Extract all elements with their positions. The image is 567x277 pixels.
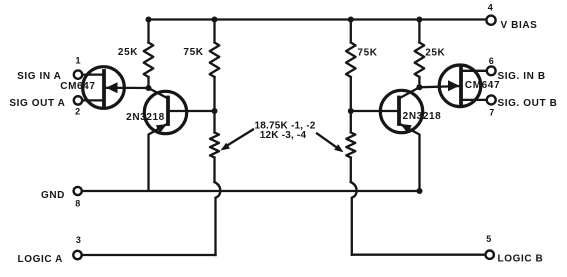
- transistor Q2 2N3218 left : circle: [144, 91, 186, 133]
- transistor Q2 2N3218 left : base bar: [166, 98, 170, 125]
- resistor 25K left: [144, 20, 154, 89]
- transistor Q4 CM647 right : pin 7 lead: [461, 99, 487, 101]
- terminal 4 V BIAS: [486, 16, 495, 25]
- CM647 right emitter arrow: [448, 80, 460, 91]
- svg-text:V BIAS: V BIAS: [501, 20, 538, 31]
- transistor Q3 2N3218 right : circle: [380, 90, 422, 132]
- CM647 left emitter arrow: [106, 82, 118, 93]
- transistor Q3 2N3218 right : base bar: [397, 98, 401, 125]
- svg-text:1: 1: [75, 56, 80, 66]
- resistor 75K right: [346, 20, 356, 112]
- svg-text:LOGIC A: LOGIC A: [18, 254, 64, 265]
- wire GND rail: [82, 190, 420, 192]
- svg-text:75K: 75K: [357, 47, 377, 58]
- svg-text:7: 7: [489, 107, 494, 117]
- svg-text:12K -3, -4: 12K -3, -4: [260, 130, 307, 141]
- transistor Q1 CM647 left : base bar: [102, 71, 106, 105]
- svg-text:4: 4: [488, 2, 493, 12]
- svg-text:CM647: CM647: [465, 80, 500, 91]
- 2N3218 left emitter arrow: [156, 124, 167, 133]
- transistor Q1 CM647 left : pin 2 lead: [82, 99, 104, 101]
- annotation arrowhead right: [334, 144, 343, 152]
- svg-text:6: 6: [489, 56, 494, 66]
- resistor 18.75K/12K left: [210, 111, 219, 182]
- annotation arrowhead left: [221, 143, 231, 151]
- resistor 25K right: [415, 20, 425, 88]
- svg-text:25K: 25K: [425, 47, 445, 58]
- transistor Q2 2N3218 left : emitter lead: [149, 124, 169, 191]
- wire LOGIC B line: [352, 254, 486, 256]
- terminal 5 LOGIC B: [486, 251, 494, 259]
- wire hop over GND left: [215, 182, 221, 255]
- wire hop over GND right: [351, 182, 357, 255]
- svg-text:LOGIC B: LOGIC B: [498, 254, 544, 265]
- resistor 75K left: [210, 20, 220, 112]
- svg-text:GND: GND: [41, 190, 65, 201]
- transistor Q4 CM647 right : circle: [439, 65, 481, 107]
- resistor 18.75K/12K right: [346, 111, 355, 182]
- transistor Q3 2N3218 right : collector lead: [399, 87, 419, 98]
- transistor Q4 CM647 right : emitter lead from node: [419, 86, 461, 87]
- junction dots top rail: [146, 17, 152, 23]
- wire LOGIC A line: [82, 254, 216, 256]
- svg-text:8: 8: [75, 199, 80, 209]
- svg-text:SIG IN A: SIG IN A: [17, 71, 61, 82]
- terminal 1 SIG IN A: [74, 70, 82, 78]
- svg-text:25K: 25K: [118, 47, 138, 58]
- svg-text:2N3218: 2N3218: [126, 112, 165, 123]
- svg-text:CM647: CM647: [60, 81, 95, 92]
- svg-text:75K: 75K: [183, 47, 203, 58]
- terminal 8 GND: [74, 187, 82, 195]
- svg-text:2: 2: [75, 106, 80, 116]
- svg-text:SIG. OUT B: SIG. OUT B: [498, 98, 558, 109]
- svg-text:SIG OUT A: SIG OUT A: [9, 98, 65, 109]
- svg-text:2N3218: 2N3218: [403, 111, 442, 122]
- annotation arrow left: [226, 130, 254, 147]
- transistor Q1 CM647 left : emitter lead to node: [104, 87, 149, 89]
- transistor Q2 2N3218 left : collector lead: [149, 88, 169, 99]
- transistor Q2 2N3218 left : base lead: [168, 110, 215, 112]
- transistor Q4 CM647 right : base bar: [459, 68, 463, 104]
- transistor Q4 CM647 right : pin 6 lead: [461, 70, 487, 72]
- node: 25K-R / CM647-R junction: [416, 84, 422, 90]
- terminal 6 SIG IN B: [487, 66, 496, 75]
- node: Q3 emitter / GND junction: [417, 188, 423, 194]
- terminal 7 SIG OUT B: [487, 95, 496, 104]
- transistor Q1 CM647 left : circle: [83, 67, 125, 109]
- svg-text:3: 3: [76, 235, 81, 245]
- svg-text:SIG. IN B: SIG. IN B: [498, 71, 546, 82]
- 2N3218 right emitter arrow: [401, 124, 412, 133]
- svg-text:5: 5: [486, 234, 491, 244]
- terminal 2 SIG OUT A: [74, 96, 82, 104]
- transistor Q3 2N3218 right : emitter lead: [399, 124, 420, 192]
- annotation arrow right: [317, 134, 338, 149]
- transistor Q3 2N3218 right : base lead: [351, 110, 399, 112]
- node: 75K-L / Q2 base junction: [212, 108, 218, 114]
- wire top supply rail: [149, 18, 487, 20]
- terminal 3 LOGIC A: [73, 251, 81, 259]
- node: 25K-L / CM647-L / Q2 collector junction: [146, 85, 152, 91]
- transistor Q1 CM647 left : pin 1 lead: [82, 73, 104, 75]
- node: 75K-R / Q3 base junction: [348, 108, 354, 114]
